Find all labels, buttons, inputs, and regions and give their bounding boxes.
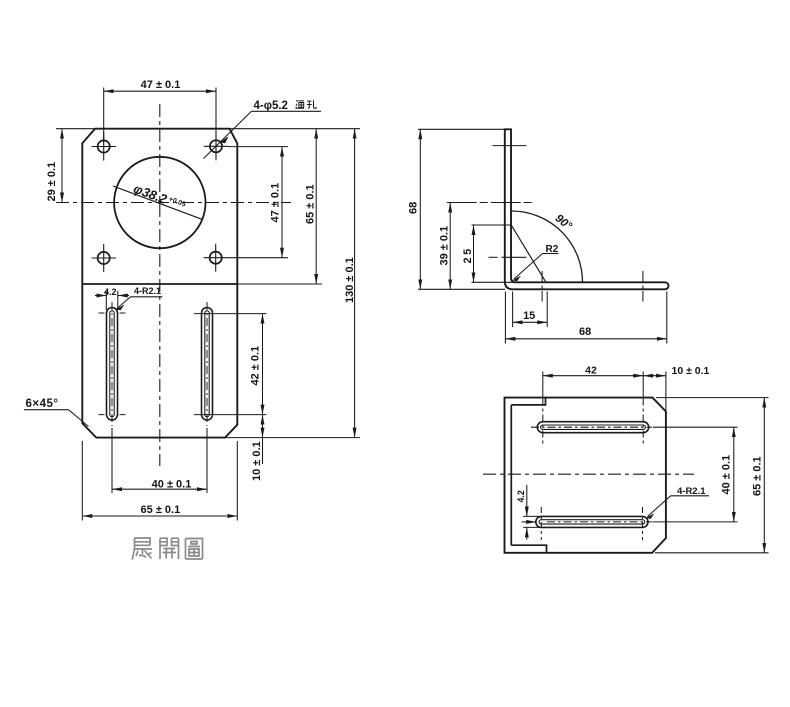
dim 25: extension (472, 224, 512, 226)
hole bottom-left (92, 244, 117, 272)
bend line right extension (238, 283, 322, 285)
slot left end ticks (99, 312, 105, 314)
leader 4-phi5.2 underline (251, 110, 321, 112)
slot right centerline (206, 302, 208, 426)
L profile outline (505, 129, 669, 289)
dim 15: extensions (512, 292, 514, 328)
diameter line (113, 186, 202, 219)
svg-text:68: 68 (579, 326, 591, 338)
dim 42: dimension line (543, 375, 643, 377)
dim 68 left: text (408, 202, 420, 214)
slot right outer (202, 308, 213, 421)
dim 4.2 slot width: extensions (105, 291, 107, 310)
slot top centerline (531, 426, 652, 428)
dim 130 right: dimension line (354, 129, 356, 438)
dim 65 right: text (305, 184, 317, 224)
CJK tong (through) (296, 100, 305, 108)
slot right inner (205, 311, 209, 417)
slot right bottom extension (194, 414, 267, 416)
svg-text:39 ± 0.1: 39 ± 0.1 (439, 226, 451, 266)
dim 47 right: dimension line (281, 147, 283, 258)
dim 42: extension up (542, 372, 544, 398)
CJK kong (hole) (307, 100, 316, 108)
tick at bottom-hole level (489, 256, 498, 258)
main horizontal centerline (483, 473, 694, 475)
slot top inner (541, 425, 646, 429)
hole top-right (204, 132, 229, 160)
label 6x45 underline + leader (24, 409, 69, 411)
hole top-left (92, 133, 117, 161)
slot bottom centerline (547, 521, 652, 523)
dim 4.2: slot edge extensions (523, 515, 541, 517)
svg-text:10 ± 0.1: 10 ± 0.1 (672, 365, 710, 377)
CJK tu (186, 539, 203, 560)
dim 65 right: dimension line (315, 129, 317, 284)
dim 65 bottom: extensions (81, 441, 83, 521)
dim 4.2: text (516, 490, 526, 502)
dim 10: dimension line (643, 375, 666, 377)
dim 39: text (439, 226, 451, 266)
svg-text:42: 42 (585, 364, 597, 376)
svg-text:29 ± 0.1: 29 ± 0.1 (46, 162, 58, 202)
bend line (82, 283, 237, 285)
dim 42 text (250, 346, 262, 386)
slot top outer (537, 422, 648, 433)
label phi38.2 (131, 181, 187, 214)
hole bottom-right (204, 244, 229, 272)
svg-text:4.2: 4.2 (516, 490, 526, 502)
dim 65: dimension line (82, 515, 237, 517)
svg-text:68: 68 (408, 202, 420, 214)
bend relief notch top (511, 398, 545, 405)
bottom edge right extension (225, 437, 360, 439)
flange inner line (510, 405, 512, 545)
dim 40: dimension line (733, 427, 735, 522)
slot top end marks (542, 399, 544, 445)
svg-text:65 ± 0.1: 65 ± 0.1 (305, 184, 317, 224)
dim 4.2: arrow on centerline (522, 521, 537, 523)
90 degree arc (512, 211, 583, 282)
svg-text:4.2: 4.2 (104, 287, 117, 297)
svg-text:4-R2.1: 4-R2.1 (134, 286, 161, 296)
diagonal through bend (511, 225, 545, 282)
centerline at circle level (447, 202, 534, 204)
pilot circle D38.2 (114, 157, 205, 248)
title: zhan-kai-tu (unfolded view), gray (132, 538, 202, 560)
dim 29: text (46, 162, 58, 202)
leader 4-phi5.2 line (204, 111, 252, 158)
plate vertical centerline (159, 104, 161, 466)
label R2 underline + leader (543, 253, 559, 255)
dim 15: dimension line (513, 321, 548, 323)
dim 40: extensions (653, 426, 738, 428)
CJK kai (160, 538, 179, 559)
svg-text:4-φ5.2: 4-φ5.2 (254, 100, 288, 112)
slot right top extension to 42 dim (194, 313, 267, 315)
slot-far position mark (642, 271, 644, 302)
bend relief notch bottom (511, 545, 546, 553)
tick at top-hole level (493, 145, 527, 147)
svg-text:15: 15 (523, 310, 535, 322)
plate outline (82, 129, 237, 438)
dim 40: dimension line (112, 488, 207, 490)
dim 68 left: dimension line (419, 129, 421, 289)
dim 65 right: extensions (656, 397, 769, 399)
svg-text:φ38.2: φ38.2 (131, 181, 169, 207)
dim 25: text (462, 246, 474, 263)
svg-text:65 ± 0.1: 65 ± 0.1 (141, 504, 181, 516)
svg-text:65 ± 0.1: 65 ± 0.1 (752, 456, 764, 496)
label 90deg (553, 212, 574, 232)
dim 4.2 arrows (95, 295, 106, 297)
circle horizontal centerline (56, 202, 291, 204)
svg-text:6×45°: 6×45° (26, 398, 59, 410)
dim 65 right: text (752, 456, 764, 496)
dim 47 top: extension lines (103, 88, 105, 144)
slot left outer (107, 308, 118, 421)
svg-text:40 ± 0.1: 40 ± 0.1 (721, 455, 733, 495)
dim 4.2: vertical line with outside arrows (526, 485, 528, 517)
dim 68 bottom: dimension line (505, 338, 666, 340)
dim 40: text (721, 455, 733, 495)
slot left inner (110, 311, 114, 417)
dim 47 right: text (270, 183, 282, 223)
svg-text:47 ± 0.1: 47 ± 0.1 (270, 183, 282, 223)
left extension of leg top edge (472, 281, 516, 283)
dim 10 text (251, 441, 263, 481)
CJK zhan (132, 538, 152, 560)
dim 10: extension (665, 372, 667, 412)
svg-text:42 ± 0.1: 42 ± 0.1 (250, 346, 262, 386)
dim 25: dimension line (473, 225, 475, 282)
dim 130 right: text (344, 257, 356, 303)
dim 29: dimension line (61, 129, 63, 203)
slot left centerline (111, 302, 113, 426)
dim 68 bottom: extensions (504, 292, 506, 344)
leader arrowhead (220, 136, 229, 143)
svg-text:40 ± 0.1: 40 ± 0.1 (152, 479, 192, 491)
outline outer (505, 398, 666, 553)
dim 39: dimension line (449, 203, 451, 290)
dim 68 left: extensions (418, 128, 505, 130)
svg-text:47 ± 0.1: 47 ± 0.1 (141, 79, 181, 91)
dim 47 top: dimension line (104, 90, 216, 92)
svg-text:10 ± 0.1: 10 ± 0.1 (251, 441, 263, 481)
slot bottom outer (536, 516, 648, 527)
slot bottom inner (539, 520, 645, 524)
top edge right extension (230, 128, 360, 130)
dim 42 / 10 right of slots: dimension line (262, 314, 264, 415)
label 4-R2.1 underline + leader (131, 296, 163, 298)
dim 47 right: extension lines (228, 146, 288, 148)
slot bottom end marks (540, 507, 542, 540)
dim 29 left: top extension (56, 128, 96, 130)
dim 40 bottom: extensions (111, 428, 113, 493)
label 4-R2.1 underline + leader (671, 495, 709, 497)
svg-text:130 ± 0.1: 130 ± 0.1 (344, 257, 356, 303)
svg-text:25: 25 (462, 246, 474, 263)
svg-text:90°: 90° (553, 212, 574, 232)
dim 65 right: dimension line (763, 398, 765, 553)
slot-near position mark (541, 271, 543, 302)
